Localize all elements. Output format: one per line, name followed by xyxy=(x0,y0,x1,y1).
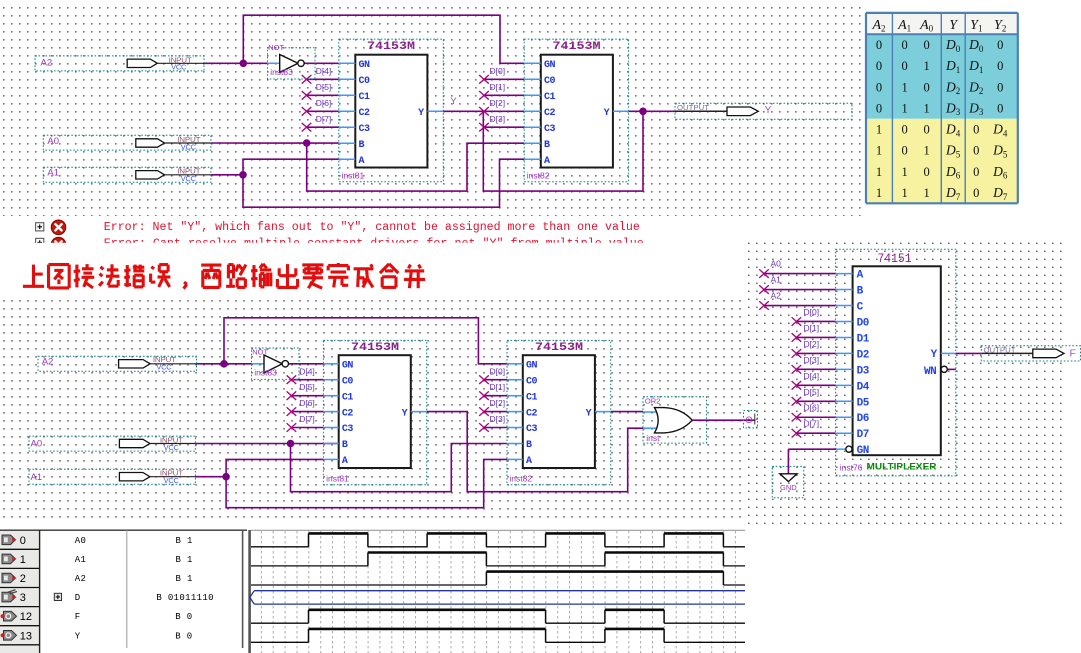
svg-text:0: 0 xyxy=(923,165,929,179)
svg-text:0: 0 xyxy=(923,80,929,94)
svg-text:0: 0 xyxy=(923,123,929,137)
svg-text:inst81: inst81 xyxy=(326,473,349,483)
svg-text:O: O xyxy=(746,415,753,425)
svg-text:0: 0 xyxy=(997,59,1003,73)
svg-text:3: 3 xyxy=(20,592,26,604)
svg-text:B 0: B 0 xyxy=(175,612,192,622)
svg-text:D[0]: D[0] xyxy=(804,307,820,317)
svg-text:A2: A2 xyxy=(41,58,53,69)
svg-text:inst: inst xyxy=(646,433,660,443)
svg-text:C2: C2 xyxy=(526,408,538,419)
svg-text:Error: Net "Y", which fans out: Error: Net "Y", which fans out to "Y", c… xyxy=(104,221,640,234)
svg-text:GND: GND xyxy=(780,483,797,492)
svg-text:A1: A1 xyxy=(75,555,87,565)
svg-text:A: A xyxy=(544,156,550,167)
svg-text:VCC: VCC xyxy=(164,445,179,452)
svg-text:D[7]: D[7] xyxy=(299,414,315,424)
svg-text:C0: C0 xyxy=(544,76,556,87)
svg-text:INPUT: INPUT xyxy=(169,57,193,64)
svg-text:74153M: 74153M xyxy=(553,41,601,53)
svg-text:D[5]: D[5] xyxy=(804,387,820,397)
svg-text:A1: A1 xyxy=(47,168,59,179)
svg-text:D[7]: D[7] xyxy=(804,419,820,429)
svg-text:1: 1 xyxy=(923,144,929,158)
svg-text:F: F xyxy=(1070,347,1076,359)
svg-text:0: 0 xyxy=(876,38,882,52)
svg-text:Y: Y xyxy=(418,108,424,119)
svg-text:INPUT: INPUT xyxy=(177,169,201,176)
svg-text:0: 0 xyxy=(923,38,929,52)
svg-text:1: 1 xyxy=(876,144,882,158)
svg-text:1: 1 xyxy=(901,165,907,179)
svg-text:D[5]: D[5] xyxy=(316,82,332,92)
svg-text:OR2: OR2 xyxy=(645,397,660,406)
svg-text:A0: A0 xyxy=(75,536,87,546)
svg-text:C0: C0 xyxy=(359,76,371,87)
svg-text:74153M: 74153M xyxy=(535,342,583,354)
svg-text:F: F xyxy=(75,612,81,622)
svg-text:D[6]: D[6] xyxy=(316,98,332,108)
svg-text:0: 0 xyxy=(973,123,979,137)
svg-text:GN: GN xyxy=(359,60,371,71)
svg-text:0: 0 xyxy=(876,101,882,115)
svg-text:MULTIPLEXER: MULTIPLEXER xyxy=(867,462,937,473)
svg-text:Y: Y xyxy=(604,108,610,119)
svg-text:A0: A0 xyxy=(47,136,59,147)
svg-text:B 0: B 0 xyxy=(175,631,192,641)
svg-text:1: 1 xyxy=(876,123,882,137)
svg-text:D[3]: D[3] xyxy=(490,114,506,124)
svg-text:D[3]: D[3] xyxy=(804,355,820,365)
svg-text:C0: C0 xyxy=(526,376,538,387)
svg-text:A2: A2 xyxy=(42,357,54,368)
svg-text:INPUT: INPUT xyxy=(160,438,184,445)
svg-text:D5: D5 xyxy=(857,397,870,409)
svg-text:1: 1 xyxy=(923,186,929,200)
svg-text:GN: GN xyxy=(526,361,538,372)
svg-text:D[7]: D[7] xyxy=(316,114,332,124)
svg-text:Y: Y xyxy=(931,349,938,361)
svg-text:A2: A2 xyxy=(75,574,87,584)
svg-text:Y: Y xyxy=(765,104,772,116)
svg-text:B 1: B 1 xyxy=(176,574,193,584)
svg-text:A: A xyxy=(526,456,532,467)
svg-text:D[6]: D[6] xyxy=(804,403,820,413)
svg-text:inst81: inst81 xyxy=(342,170,365,180)
svg-text:0: 0 xyxy=(901,38,907,52)
svg-text:D[2]: D[2] xyxy=(490,398,506,408)
svg-text:0: 0 xyxy=(901,144,907,158)
svg-text:inst76: inst76 xyxy=(840,463,863,473)
svg-text:OUTPUT: OUTPUT xyxy=(677,105,710,112)
svg-text:A: A xyxy=(359,156,365,167)
svg-text:1: 1 xyxy=(20,554,26,566)
svg-text:C: C xyxy=(857,302,864,314)
svg-text:INPUT: INPUT xyxy=(160,471,184,478)
svg-text:C2: C2 xyxy=(359,108,371,119)
svg-text:VCC: VCC xyxy=(181,144,196,151)
svg-text:GN: GN xyxy=(857,445,869,457)
svg-text:0: 0 xyxy=(901,123,907,137)
svg-text:B: B xyxy=(342,440,348,451)
svg-text:B: B xyxy=(857,286,864,298)
svg-text:74153M: 74153M xyxy=(351,342,399,354)
svg-text:D3: D3 xyxy=(857,365,870,377)
svg-text:D2: D2 xyxy=(857,349,869,361)
svg-text:1: 1 xyxy=(923,59,929,73)
svg-text:0: 0 xyxy=(876,80,882,94)
svg-text:Y: Y xyxy=(586,408,592,419)
svg-text:NOT: NOT xyxy=(252,348,268,357)
svg-text:13: 13 xyxy=(20,630,32,642)
svg-text:INPUT: INPUT xyxy=(153,357,177,364)
svg-text:D[5]: D[5] xyxy=(299,382,315,392)
svg-text:inst83: inst83 xyxy=(254,368,277,378)
svg-text:WN: WN xyxy=(924,366,936,378)
svg-text:12: 12 xyxy=(20,611,32,623)
svg-text:A: A xyxy=(342,456,348,467)
svg-text:1: 1 xyxy=(876,186,882,200)
svg-text:0: 0 xyxy=(20,535,26,547)
svg-text:1: 1 xyxy=(901,80,907,94)
svg-text:INPUT: INPUT xyxy=(177,137,201,144)
svg-text:B: B xyxy=(526,440,532,451)
svg-text:C1: C1 xyxy=(544,92,556,103)
svg-text:VCC: VCC xyxy=(156,364,171,371)
svg-text:GN: GN xyxy=(342,361,354,372)
svg-text:D[0]: D[0] xyxy=(490,366,506,376)
svg-text:NOT: NOT xyxy=(268,43,284,52)
svg-text:D4: D4 xyxy=(857,381,870,393)
svg-text:A1: A1 xyxy=(31,472,43,483)
svg-text:D[1]: D[1] xyxy=(804,323,820,333)
svg-text:D[6]: D[6] xyxy=(299,398,315,408)
svg-text:1: 1 xyxy=(901,101,907,115)
svg-text:C3: C3 xyxy=(526,424,538,435)
svg-text:C1: C1 xyxy=(342,392,354,403)
svg-text:0: 0 xyxy=(876,59,882,73)
svg-text:D[0]: D[0] xyxy=(490,66,506,76)
svg-text:C3: C3 xyxy=(359,124,371,135)
svg-text:A1: A1 xyxy=(771,275,782,285)
svg-text:Y: Y xyxy=(402,408,408,419)
svg-text:D1: D1 xyxy=(857,333,870,345)
svg-text:0: 0 xyxy=(973,144,979,158)
svg-text:B: B xyxy=(544,140,550,151)
svg-text:B 1: B 1 xyxy=(176,555,193,565)
svg-text:A0: A0 xyxy=(31,439,43,450)
svg-text:C3: C3 xyxy=(544,124,556,135)
svg-text:OUTPUT: OUTPUT xyxy=(984,347,1017,354)
svg-text:0: 0 xyxy=(997,101,1003,115)
svg-text:D[4]: D[4] xyxy=(804,371,820,381)
svg-text:D[3]: D[3] xyxy=(490,414,506,424)
svg-text:0: 0 xyxy=(997,80,1003,94)
svg-text:Y: Y xyxy=(450,96,457,107)
svg-text:inst82: inst82 xyxy=(527,170,550,180)
svg-text:D[2]: D[2] xyxy=(804,339,820,349)
svg-text:A: A xyxy=(857,270,864,282)
svg-text:VCC: VCC xyxy=(164,478,179,485)
svg-text:0: 0 xyxy=(973,165,979,179)
svg-text:GN: GN xyxy=(544,60,556,71)
svg-text:A2: A2 xyxy=(771,291,782,301)
svg-text:74151: 74151 xyxy=(878,252,912,266)
svg-text:1: 1 xyxy=(923,101,929,115)
svg-text:C1: C1 xyxy=(359,92,371,103)
svg-text:inst82: inst82 xyxy=(509,473,532,483)
svg-text:D[4]: D[4] xyxy=(299,366,315,376)
svg-text:D[1]: D[1] xyxy=(490,382,506,392)
svg-text:D[4]: D[4] xyxy=(316,66,332,76)
svg-text:D[2]: D[2] xyxy=(490,98,506,108)
svg-text:1: 1 xyxy=(901,186,907,200)
svg-text:D7: D7 xyxy=(857,429,869,441)
svg-text:C3: C3 xyxy=(342,424,354,435)
svg-text:B 1: B 1 xyxy=(176,536,193,546)
svg-text:2: 2 xyxy=(20,573,26,585)
svg-text:0: 0 xyxy=(997,38,1003,52)
svg-text:inst83: inst83 xyxy=(270,67,293,77)
svg-text:74153M: 74153M xyxy=(367,41,415,53)
svg-text:D[1]: D[1] xyxy=(490,82,506,92)
svg-text:0: 0 xyxy=(973,186,979,200)
svg-text:B 01011110: B 01011110 xyxy=(156,593,214,603)
svg-text:1: 1 xyxy=(876,165,882,179)
svg-text:C0: C0 xyxy=(342,376,354,387)
svg-text:Y: Y xyxy=(75,631,81,641)
svg-text:B: B xyxy=(359,140,365,151)
svg-text:D0: D0 xyxy=(857,317,869,329)
svg-text:D6: D6 xyxy=(857,413,869,425)
svg-text:D: D xyxy=(75,593,81,603)
svg-text:A0: A0 xyxy=(771,259,782,269)
svg-text:0: 0 xyxy=(901,59,907,73)
svg-text:C2: C2 xyxy=(544,108,556,119)
svg-text:C2: C2 xyxy=(342,408,354,419)
svg-text:C1: C1 xyxy=(526,392,538,403)
svg-text:VCC: VCC xyxy=(181,176,196,183)
svg-text:VCC: VCC xyxy=(171,65,186,72)
